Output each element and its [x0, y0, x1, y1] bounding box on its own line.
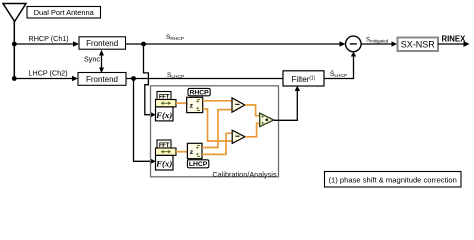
svg-text:Frontend: Frontend	[86, 39, 118, 48]
wire z2 bottom output to divider2 top input (orange)	[202, 133, 232, 154]
wire divider1 output to multiplier top input (orange)	[245, 105, 260, 116]
wire SX-NSR output RINEX	[438, 41, 470, 47]
wire Frontend1 to subtract node (S_RHCP)	[126, 41, 346, 46]
wire subtract node to SX-NSR (S mitigated)	[361, 41, 397, 46]
node junction dot antenna-LHCP	[12, 76, 17, 81]
subtract node	[346, 36, 362, 52]
node junction dot LHCP tap	[131, 76, 136, 81]
wire z1 bottom output to divider2 bottom input (orange)	[203, 109, 232, 141]
note box (1) phase shift & magnitude correction	[325, 172, 462, 188]
svg-text:F(x): F(x)	[155, 159, 172, 169]
op divider1 (triangle)	[232, 98, 245, 112]
node junction dot RHCP tap	[141, 42, 146, 47]
svg-text:SX-NSR: SX-NSR	[401, 40, 436, 50]
svg-text:RHCP (Ch1): RHCP (Ch1)	[29, 34, 69, 43]
svg-text:Dual Port Antenna: Dual Port Antenna	[34, 8, 95, 17]
wire RHCP tap down to FFT1 (with hop over S_LHCP wire)	[144, 44, 156, 117]
antenna (dual port)	[3, 4, 26, 79]
box Calibration/Analysis	[151, 86, 279, 179]
svg-text:Frontend: Frontend	[86, 75, 118, 84]
svg-text:Calibration/Analysis: Calibration/Analysis	[212, 170, 276, 179]
svg-text:Smitigated: Smitigated	[366, 38, 389, 44]
svg-text:RHCP: RHCP	[189, 89, 209, 96]
svg-text:LHCP (Ch2): LHCP (Ch2)	[29, 69, 68, 78]
svg-text:z: z	[190, 103, 194, 110]
label box LHCP	[187, 160, 208, 168]
wire LHCP tap down to FFT2	[134, 79, 156, 165]
wire z1 top output to divider1 top input (orange)	[203, 100, 232, 102]
svg-text:LHCP: LHCP	[189, 161, 208, 168]
wire FFT2 to z2 (orange)	[176, 151, 188, 153]
svg-text:z: z	[190, 149, 194, 156]
wire FFT1 to z1 (orange)	[176, 102, 188, 104]
svg-text:(1) phase shift & magnitude co: (1) phase shift & magnitude correction	[329, 176, 457, 185]
block z2 (LHCP complex block)	[187, 143, 202, 158]
block Filter	[283, 71, 324, 86]
block Frontend (LHCP)	[78, 73, 126, 86]
op divider2 (triangle)	[232, 130, 245, 143]
block z1 (RHCP complex block)	[187, 97, 203, 112]
sync double arrow	[99, 50, 104, 73]
wire z2 top output to divider1 bottom input (orange)	[202, 110, 232, 148]
svg-text:RINEX: RINEX	[442, 34, 467, 43]
wire divider2 output to multiplier bottom input (orange)	[245, 123, 260, 136]
block FFT2 (LHCP FFT icon)	[155, 140, 176, 170]
label box Dual Port Antenna	[27, 7, 101, 19]
op multiplier (triangle)	[260, 113, 274, 126]
node junction dot antenna-RHCP	[12, 42, 17, 47]
label box RHCP	[188, 88, 210, 96]
wire antenna to Frontend2	[14, 76, 78, 81]
svg-text:F(x): F(x)	[155, 110, 172, 120]
wire multiplier output to Filter (black, up into Filter bottom)	[274, 86, 300, 121]
wire Frontend2 to Filter (S_LHCP)	[126, 78, 283, 80]
svg-text:Sync: Sync	[84, 55, 100, 64]
block FFT1 (RHCP FFT icon)	[155, 92, 176, 121]
block SX-NSR	[398, 38, 439, 52]
wire antenna to Frontend1	[14, 41, 79, 46]
block Frontend (RHCP)	[79, 37, 126, 49]
wire Filter output up to subtract node (S-hat LHCP)	[324, 52, 356, 79]
